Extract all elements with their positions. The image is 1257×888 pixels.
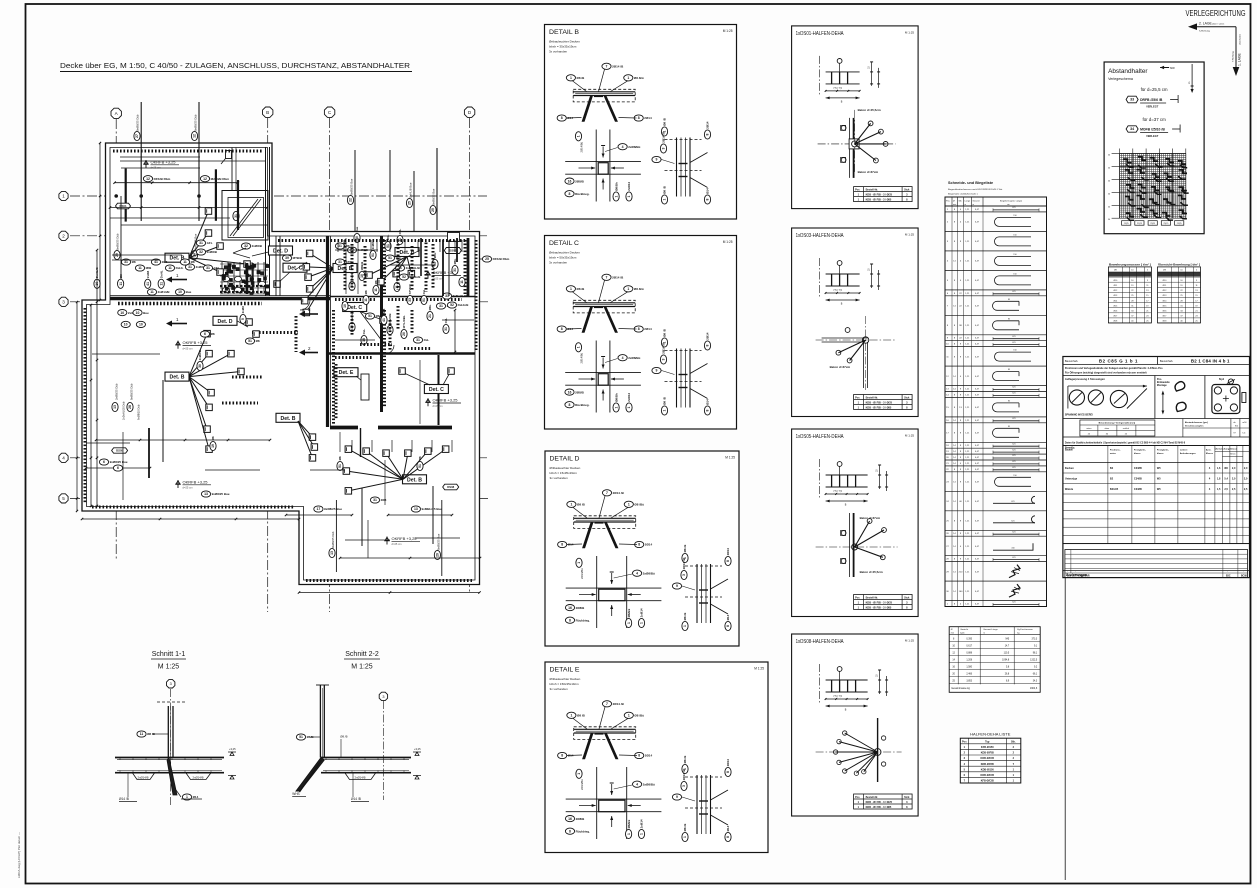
title block big table grid <box>1063 446 1250 544</box>
thick rebar bar x125 <box>125 169 127 222</box>
extra short bars right section top band <box>337 240 339 252</box>
detail DETAIL E plan view <box>596 767 598 839</box>
svg-text:2xØ8/Bü: 2xØ8/Bü <box>643 782 655 786</box>
svg-text:51: 51 <box>248 339 252 343</box>
interior wall x327 vertical thick <box>326 236 329 427</box>
svg-text:M 1:25: M 1:25 <box>905 233 915 237</box>
oval 32 label <box>196 249 217 255</box>
svg-text:2xØ14: 2xØ14 <box>640 608 644 617</box>
svg-text:Ø8: Ø8 <box>191 260 195 264</box>
svg-text:OKRFB +3,25: OKRFB +3,25 <box>433 398 459 403</box>
detail DETAIL D edge labels <box>682 544 688 563</box>
svg-text:621: 621 <box>1012 455 1015 457</box>
title block outer frame <box>1063 357 1250 578</box>
band right outer wall vertical <box>475 240 478 350</box>
svg-text:52: 52 <box>450 303 454 307</box>
svg-text:M 1:25: M 1:25 <box>905 639 915 643</box>
svg-text:Bauvorhab.: Bauvorhab. <box>1160 359 1174 363</box>
oval 12 DFK label left <box>143 176 170 182</box>
svg-text:34,3: 34,3 <box>1033 681 1038 683</box>
svg-text:85: 85 <box>1008 400 1010 402</box>
svg-text:Ø8L: Ø8L <box>428 304 432 310</box>
Abstandhalter item 33 <box>1126 96 1138 103</box>
detail DETAIL B plan view <box>595 130 597 202</box>
svg-text:Det. D: Det. D <box>273 249 288 255</box>
svg-text:2xDsHL/25 Düb: 2xDsHL/25 Düb <box>122 401 126 420</box>
svg-text:85: 85 <box>1008 369 1010 371</box>
svg-text:1: 1 <box>627 195 631 197</box>
svg-text:2xØ14/B: 2xØ14/B <box>193 775 204 779</box>
svg-text:410: 410 <box>1011 548 1014 550</box>
detail box DETAIL C frame <box>545 236 737 430</box>
hex DS03 label right section <box>444 248 461 254</box>
svg-text:d=25 cm: d=25 cm <box>151 166 161 170</box>
svg-text:Beton d=45,5cm: Beton d=45,5cm <box>858 108 881 112</box>
svg-text:Pos: Pos <box>855 796 860 799</box>
svg-text:Det. B: Det. B <box>407 477 422 483</box>
detail box DETAIL B frame <box>545 25 737 220</box>
svg-text:lxbxh = 35x35x19cm: lxbxh = 35x35x19cm <box>549 45 577 49</box>
svg-text:Bestell-Nr.: Bestell-Nr. <box>866 397 879 400</box>
svg-text:Ø8 /B: Ø8 /B <box>577 714 586 718</box>
svg-text:9: 9 <box>676 584 678 588</box>
svg-text:33: 33 <box>408 298 412 302</box>
svg-text:2Ø14: 2Ø14 <box>644 327 652 331</box>
interior wall x468 vertical <box>467 238 470 296</box>
svg-text:13: 13 <box>113 405 117 409</box>
svg-text:Rückbieg.: Rückbieg. <box>576 829 591 833</box>
svg-text:6: 6 <box>117 466 119 470</box>
okrfb bottom right <box>384 537 389 545</box>
svg-text:2xØ8/Bü: 2xØ8/Bü <box>628 356 640 360</box>
svg-text:Ørtbauleuchter Decken: Ørtbauleuchter Decken <box>550 677 581 681</box>
svg-text:8: 8 <box>726 625 730 627</box>
oval 52 right wall <box>447 302 469 308</box>
svg-text:OKRFB +3,25: OKRFB +3,25 <box>392 536 418 541</box>
section 2-2 level marks <box>413 752 421 756</box>
interior wall x438 vertical <box>438 355 440 425</box>
stair shaft upper-left <box>222 191 268 241</box>
svg-text:DETAIL E: DETAIL E <box>550 667 581 674</box>
svg-text:+3,25: +3,25 <box>414 747 421 751</box>
svg-text:Det. B: Det. B <box>281 416 296 422</box>
svg-text:1322,5: 1322,5 <box>1030 660 1038 662</box>
okrfb right section lower <box>425 398 430 406</box>
svg-text:Ø8 /B: Ø8 /B <box>577 503 586 507</box>
Abstandhalter box frame <box>1104 62 1204 234</box>
svg-text:32: 32 <box>199 250 203 254</box>
grid marker A <box>111 108 121 118</box>
Det. B fan bottom-right big <box>403 475 427 484</box>
svg-text:51: 51 <box>418 464 422 468</box>
svg-text:Gewicht: Gewicht <box>960 628 968 631</box>
svg-text:2Ø14: 2Ø14 <box>645 543 653 547</box>
svg-text:41: 41 <box>154 260 158 264</box>
svg-text:9xØ8/25 Bue: 9xØ8/25 Bue <box>436 533 440 550</box>
svg-text:621: 621 <box>1012 393 1015 395</box>
svg-text:7: 7 <box>606 702 608 706</box>
svg-text:Betondeckung / Verlegemaße [mm: Betondeckung / Verlegemaße [mm] <box>1099 422 1136 425</box>
okrfb lower left hall <box>175 341 180 349</box>
svg-text:1xDS08-HALFEN-DEHA: 1xDS08-HALFEN-DEHA <box>796 639 844 645</box>
svg-text:2,0: 2,0 <box>1232 478 1236 481</box>
oval 32 SrHB label <box>241 243 262 249</box>
svg-text:2xØ8: 2xØ8 <box>146 271 150 279</box>
dowel band along row3 left <box>118 302 262 305</box>
title block spacer numbers right <box>1182 419 1184 438</box>
svg-text:cm: cm <box>1007 204 1010 206</box>
svg-text:DsHL/B Bue: DsHL/B Bue <box>409 182 413 198</box>
section 2-2 bottom spacer <box>345 773 376 780</box>
outer top dimension at x100 <box>99 143 101 300</box>
svg-text:GFL: GFL <box>214 266 220 270</box>
svg-text:4: 4 <box>622 145 624 149</box>
svg-text:1xDS05-HALFEN-DEHA: 1xDS05-HALFEN-DEHA <box>796 434 844 440</box>
interior wall x381 vertical <box>380 236 383 412</box>
oval 31 2xDsHL right wall <box>442 293 467 299</box>
oval 29 left edge chain <box>120 196 122 280</box>
svg-text:MAT4/B Rbm: MAT4/B Rbm <box>211 177 230 181</box>
svg-text:1: 1 <box>570 287 572 291</box>
svg-text:8: 8 <box>706 198 710 200</box>
svg-text:Änderungen: Änderungen <box>1066 573 1087 577</box>
title block big table header <box>1063 445 1250 447</box>
svg-text:Für Öffnungen (wichtig) darges: Für Öffnungen (wichtig) dargestellt sind… <box>1065 372 1147 375</box>
svg-text:Biegemaße sind Außenmaße |: Biegemaße sind Außenmaße | <box>948 193 978 196</box>
svg-text:2Ø14 /B: 2Ø14 /B <box>613 491 625 495</box>
1xDS05-HALFEN-DEHA parts table <box>854 595 913 610</box>
title block concrete cover row <box>1063 436 1250 438</box>
svg-text:7,5 | 7,5: 7,5 | 7,5 <box>833 490 842 493</box>
svg-text:Stck: Stck <box>904 796 910 799</box>
svg-text:2Ø8/B: 2Ø8/B <box>575 179 585 183</box>
svg-text:8: 8 <box>726 836 730 838</box>
svg-text:1,208: 1,208 <box>966 660 972 662</box>
left thick bars near row4 <box>148 428 150 478</box>
svg-text:Ø8 /B: Ø8 /B <box>577 76 586 80</box>
oval 19 mid hall2 <box>210 436 216 451</box>
svg-text:3x vorhanden: 3x vorhanden <box>550 687 569 691</box>
svg-text:ds: ds <box>1233 422 1235 424</box>
svg-text:4: 4 <box>62 456 65 461</box>
svg-text:16: 16 <box>568 817 572 821</box>
1xDS05-HALFEN-DEHA plan view <box>853 513 855 577</box>
svg-text:Ø: Ø <box>951 629 953 631</box>
svg-text:3x vorhanden: 3x vorhanden <box>549 261 568 265</box>
crosshair bottom left <box>86 442 130 444</box>
svg-text:9xØ8/25 Düb: 9xØ8/25 Düb <box>193 114 197 131</box>
svg-text:8: 8 <box>638 116 640 120</box>
svg-text:1: 1 <box>627 406 631 408</box>
small door right top <box>448 233 460 242</box>
svg-text:2Ø14 /B: 2Ø14 /B <box>613 702 625 706</box>
svg-text:DS03: DS03 <box>449 249 457 253</box>
svg-text:B2/L85: B2/L85 <box>1110 488 1119 491</box>
1xDS08-HALFEN-DEHA stud height dims <box>879 670 881 694</box>
grid line C vertical <box>329 118 331 612</box>
Abstandhalter mesh bottom labels <box>1122 221 1131 226</box>
svg-text:M 1:25: M 1:25 <box>351 664 373 671</box>
band top edge right section <box>278 239 470 242</box>
svg-text:Abstandshammer [ges]: Abstandshammer [ges] <box>1185 421 1208 424</box>
rotated chain bottom x336 <box>335 500 337 572</box>
corridor wall x277 between B and C <box>275 236 277 296</box>
svg-text:1: 1 <box>577 135 581 137</box>
svg-text:Ø8 /B: Ø8 /B <box>663 185 667 194</box>
grid line 5 horizontal <box>70 497 490 499</box>
dim line upper-left block <box>115 182 238 184</box>
svg-text:51: 51 <box>368 314 372 318</box>
svg-text:1: 1 <box>628 714 630 718</box>
svg-text:Ø14: Ø14 <box>706 188 710 194</box>
svg-text:KDB - Ø/ F85 - 3 / Ø/25: KDB - Ø/ F85 - 3 / Ø/25 <box>866 602 893 605</box>
svg-text:1: 1 <box>577 773 581 775</box>
bottom labels 13 right <box>411 506 442 512</box>
svg-text:1,6: 1,6 <box>1217 467 1221 470</box>
hex DS05 row4 left <box>112 448 128 453</box>
svg-text:9: 9 <box>656 158 658 162</box>
detail DETAIL B edge section <box>676 138 678 197</box>
svg-text:621: 621 <box>1011 520 1014 522</box>
okrfb bottom hall <box>175 480 180 488</box>
detail DETAIL E beam labels <box>567 712 586 718</box>
grid marker 4 <box>59 453 68 462</box>
svg-text:Verlegeschema: Verlegeschema <box>1108 77 1133 81</box>
svg-text:150: 150 <box>1013 273 1016 275</box>
rotated chain bottom x442 <box>441 500 443 576</box>
Abstandhalter item 34 <box>1126 126 1138 132</box>
svg-text:Daten für Statik/schnittmittel: Daten für Statik/schnittmittelteile | Sp… <box>1065 442 1186 445</box>
svg-text:9xØ8/25 Bue: 9xØ8/25 Bue <box>212 492 230 496</box>
svg-text:Ø8 /Bü: Ø8 /Bü <box>634 503 644 507</box>
svg-text:10: 10 <box>139 323 143 327</box>
section mark 1 lower <box>172 323 187 325</box>
svg-text:Ø8 /B: Ø8 /B <box>683 823 687 832</box>
detail DETAIL C plan view <box>595 341 597 413</box>
svg-text:8: 8 <box>569 192 571 196</box>
svg-text:Rückbieg.: Rückbieg. <box>576 618 591 622</box>
svg-text:für d=25,5 cm: für d=25,5 cm <box>1141 87 1168 92</box>
1xDS03-HALFEN-DEHA plan view <box>822 337 868 339</box>
svg-text:2xØ14: 2xØ14 <box>640 819 644 828</box>
1xDS08-HALFEN-DEHA box frame <box>792 634 919 816</box>
svg-text:2Ø8: 2Ø8 <box>162 260 168 264</box>
svg-text:M 1:25: M 1:25 <box>723 240 733 244</box>
svg-text:Festigkeits-: Festigkeits- <box>1134 449 1146 452</box>
svg-text:d=25 cm: d=25 cm <box>183 346 193 350</box>
svg-text:lxbxh = 150x35x19cm: lxbxh = 150x35x19cm <box>550 682 580 686</box>
svg-text:Auflagerpressung 4 Stossungen: Auflagerpressung 4 Stossungen <box>1065 377 1105 381</box>
left vertical dimension chain 2 <box>90 305 92 506</box>
right section bands extra <box>344 243 347 291</box>
svg-text:C34/85: C34/85 <box>1134 478 1143 481</box>
svg-text:Ø8: Ø8 <box>211 332 215 336</box>
svg-text:2Ø14/Bü: 2Ø14/Bü <box>580 568 584 579</box>
title block diagram cell <box>1063 418 1250 420</box>
row3 band thicker <box>118 302 262 305</box>
svg-text:C34/85: C34/85 <box>1134 488 1143 491</box>
svg-text:OKRFB +3,25: OKRFB +3,25 <box>183 480 209 485</box>
oval 30 mid hall <box>197 349 203 370</box>
svg-text:Beton d=37cm: Beton d=37cm <box>830 365 851 369</box>
svg-text:Ø8: Ø8 <box>256 339 260 343</box>
svg-text:8: 8 <box>569 829 571 833</box>
svg-text:DRFB /25/6 /B: DRFB /25/6 /B <box>1140 98 1163 102</box>
svg-text:2xØ8/B: 2xØ8/B <box>198 349 202 360</box>
svg-text:KDB - Ø/ F85 - 3 / Ø/25: KDB - Ø/ F85 - 3 / Ø/25 <box>866 801 893 804</box>
verlege arrow left (2. LAGE) <box>1196 26 1236 28</box>
svg-text:Ø8/Bk: Ø8/Bk <box>614 182 618 191</box>
svg-text:Ørtbauleuchter Decken: Ørtbauleuchter Decken <box>549 40 580 44</box>
section 1-1 level marks <box>228 752 236 756</box>
svg-text:weise: weise <box>1110 453 1117 455</box>
svg-text:0,395: 0,395 <box>966 639 972 641</box>
dowel band lower mid y377 <box>232 376 262 379</box>
svg-text:1: 1 <box>683 836 687 838</box>
svg-text:12: 12 <box>203 177 207 181</box>
1xDS08-HALFEN-DEHA stud elevation <box>819 664 821 704</box>
section 2-2 grid marker 3 <box>379 692 387 700</box>
dim vertical right x455 <box>454 310 456 352</box>
svg-text:8: 8 <box>706 409 710 411</box>
svg-text:Ø8: Ø8 <box>376 314 380 318</box>
rotated chain x355 top <box>354 150 356 231</box>
svg-text:C34/85: C34/85 <box>1134 467 1143 470</box>
svg-text:SPANNING IM EG BEREI: SPANNING IM EG BEREI <box>1065 414 1093 417</box>
svg-text:Pos: Pos <box>855 397 860 400</box>
svg-text:3x vorhanden: 3x vorhanden <box>549 50 568 54</box>
svg-text:9xØ8/25 Bue: 9xØ8/25 Bue <box>432 188 436 205</box>
svg-text:klasse: klasse <box>1134 453 1141 455</box>
svg-text:11: 11 <box>119 282 123 286</box>
svg-text:621: 621 <box>1012 602 1015 604</box>
svg-text:7,5 | 7,5: 7,5 | 7,5 <box>833 289 842 292</box>
svg-text:621: 621 <box>1012 531 1015 533</box>
right section extra ovals A <box>335 243 350 249</box>
svg-text:1,8: 1,8 <box>1217 478 1221 481</box>
svg-text:9xØ8/25 Düb: 9xØ8/25 Düb <box>136 114 140 131</box>
Det. C fan bottom right <box>424 385 448 394</box>
interior wall row3 right <box>330 296 475 298</box>
Det. D label upper <box>269 246 293 255</box>
svg-text:Pos: Pos <box>962 740 967 743</box>
detail DETAIL E edge section <box>696 775 698 834</box>
svg-text:4: 4 <box>636 571 638 575</box>
section mark 1 upper <box>172 279 187 281</box>
svg-text:29: 29 <box>436 553 440 557</box>
svg-text:1: 1 <box>577 562 581 564</box>
left vertical dimension chain <box>96 250 98 506</box>
Det. C fan right middle <box>343 303 367 312</box>
svg-text:52: 52 <box>402 275 406 279</box>
svg-text:d=25 cm: d=25 cm <box>433 404 443 408</box>
svg-text:31: 31 <box>416 338 420 342</box>
svg-text:2xØ14/B: 2xØ14/B <box>138 775 149 779</box>
svg-text:7: 7 <box>606 491 608 495</box>
svg-text:2xØ8: 2xØ8 <box>241 306 245 314</box>
detail DETAIL E beam section <box>574 727 636 740</box>
svg-text:KFB-Ø/C85: KFB-Ø/C85 <box>981 780 995 783</box>
svg-text:1094,8: 1094,8 <box>1002 660 1010 662</box>
svg-text:Ø8L: Ø8L <box>453 258 457 264</box>
dowel band right section row3 <box>388 298 462 301</box>
grid line 3 horizontal <box>70 301 490 303</box>
svg-text:Montage: Montage <box>1157 384 1167 387</box>
svg-text:Ø8: Ø8 <box>364 290 368 294</box>
svg-text:Ø14 /B: Ø14 /B <box>351 797 361 801</box>
svg-text:DsL: DsL <box>424 338 430 342</box>
Abstandhalter mesh zigzag markers <box>1123 159 1131 162</box>
svg-text:41: 41 <box>382 318 386 322</box>
vertical rebar line x421 right <box>420 238 422 276</box>
svg-text:51: 51 <box>388 256 392 260</box>
svg-text:MfB: MfB <box>146 266 152 270</box>
svg-text:lxbxh = 50x35x19cm: lxbxh = 50x35x19cm <box>549 256 577 260</box>
svg-text:2Ø8: 2Ø8 <box>381 498 387 502</box>
svg-text:Ø8 /B: Ø8 /B <box>663 117 667 126</box>
dowel band along row3 mid <box>335 298 375 301</box>
svg-text:Ø8 /B: Ø8 /B <box>683 544 687 553</box>
svg-text:13: 13 <box>330 551 334 555</box>
svg-text:2Ø14 /B: 2Ø14 /B <box>682 768 686 780</box>
svg-text:KDB-Ø/C85: KDB-Ø/C85 <box>981 774 995 777</box>
1xDS03-HALFEN-DEHA stud dimension <box>826 292 860 294</box>
svg-text:621: 621 <box>1012 443 1015 445</box>
svg-text:31: 31 <box>188 265 192 269</box>
svg-text:seitlich: seitlich <box>1123 427 1130 430</box>
oval 31 2xDsHL label right <box>395 265 420 271</box>
svg-text:Ø8/Bk: Ø8/Bk <box>627 608 631 617</box>
svg-text:1: 1 <box>570 503 572 507</box>
detail DETAIL E edge labels <box>682 755 688 774</box>
1xDS01-HALFEN-DEHA box frame <box>792 26 919 209</box>
grid marker 3 <box>59 297 68 306</box>
svg-text:0,888: 0,888 <box>966 653 972 655</box>
oval 6 bottom left <box>99 459 128 465</box>
svg-text:Decke über EG, M 1:50, C 40/50: Decke über EG, M 1:50, C 40/50 - ZULAGEN… <box>60 61 410 70</box>
svg-text:2Ø14/Bü: 2Ø14/Bü <box>580 779 584 790</box>
svg-text:2Ø8/B: 2Ø8/B <box>576 817 586 821</box>
oval 6 label near DetD <box>200 331 215 337</box>
section mark 2 upper <box>305 313 318 315</box>
WC cluster solid strips <box>246 263 249 294</box>
long thin rebar lines right rooms <box>335 249 378 251</box>
svg-text:Gesamtmasse kg: Gesamtmasse kg <box>951 687 970 690</box>
svg-text:weitere: weitere <box>1180 449 1188 452</box>
svg-text:85: 85 <box>1008 426 1010 428</box>
1xDS01-HALFEN-DEHA stud elevation <box>819 56 821 96</box>
oval 31 bottom right wall <box>443 318 449 334</box>
svg-text:Bestell-Nr.: Bestell-Nr. <box>866 189 879 192</box>
rebar chain x414 top right <box>413 171 415 232</box>
svg-text:Ø8 /Bü: Ø8 /Bü <box>634 287 644 291</box>
thick rebar bar x216 <box>215 169 217 221</box>
oval 25 outside right edge <box>482 256 509 262</box>
1xDS08-HALFEN-DEHA stud dimension <box>826 698 868 700</box>
svg-text:150: 150 <box>1013 215 1016 217</box>
svg-text:26,8: 26,8 <box>1005 674 1010 676</box>
grid line A vertical <box>115 119 117 560</box>
svg-text:2,5: 2,5 <box>1232 488 1236 491</box>
svg-text:2: 2 <box>62 234 65 239</box>
svg-text:Ø8: Ø8 <box>119 274 123 278</box>
svg-text:7: 7 <box>606 65 608 69</box>
svg-text:30: 30 <box>198 364 202 368</box>
outer left dimension chain x77 <box>76 302 78 511</box>
oval 39 label <box>282 255 303 261</box>
Det. B fan right <box>395 248 419 257</box>
1xDS05-HALFEN-DEHA box frame <box>792 429 919 617</box>
